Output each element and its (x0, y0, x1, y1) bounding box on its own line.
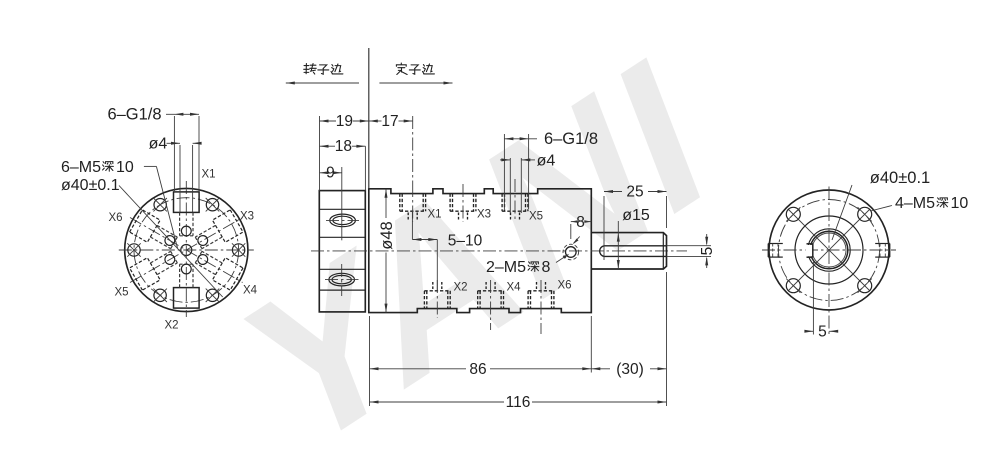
label stator side with arrow (379, 82, 452, 84)
shaft end chamfer line (662, 233, 664, 269)
port X2 (side view bottom) (423, 291, 425, 309)
right view side tab right (875, 243, 890, 245)
svg-text:5–10: 5–10 (448, 233, 483, 250)
label 4-M5 deep10 leader (871, 206, 893, 212)
left view center hole (181, 245, 192, 256)
left view outer circle (125, 188, 248, 311)
left view port X1 boss (top) (174, 192, 200, 236)
svg-text:6–G1/8: 6–G1/8 (544, 130, 598, 148)
port X4 (side view bottom) (477, 291, 479, 309)
svg-text:X6: X6 (108, 212, 122, 224)
svg-text:10: 10 (116, 159, 134, 176)
watermark (223, 4, 731, 463)
right view bolt circle centerline (779, 200, 880, 301)
rotor flange ellipse port top (330, 214, 356, 227)
svg-text:6–G1/8: 6–G1/8 (107, 106, 161, 124)
svg-text:8: 8 (576, 214, 585, 231)
left view bolt circle (centerline) (134, 198, 239, 303)
dim 17 (369, 120, 382, 122)
svg-text:ø40±0.1: ø40±0.1 (870, 169, 930, 187)
svg-text:8: 8 (542, 259, 551, 276)
right view 4x M5 holes (858, 279, 872, 293)
svg-text:18: 18 (335, 138, 352, 155)
left view port X2 boss (bottom) (174, 264, 200, 308)
right view outer circle (769, 190, 889, 310)
dim phi4 (left view) (179, 145, 181, 212)
2-M5 deep8 hole (566, 247, 577, 258)
left view vertical centerline (185, 181, 187, 317)
rotor flange outline (319, 191, 365, 312)
right view side tab left (768, 243, 783, 245)
svg-text:X4: X4 (506, 282, 521, 294)
left view 6x M5 bolt holes (232, 244, 244, 256)
svg-text:X4: X4 (243, 285, 258, 297)
svg-text:ø15: ø15 (622, 207, 650, 224)
svg-text:2–M5: 2–M5 (486, 259, 526, 276)
right view centerlines (762, 249, 896, 251)
svg-text:X5: X5 (529, 211, 543, 223)
left view port X6 boss (150deg) (130, 210, 181, 254)
stator body outline (369, 189, 592, 313)
dim 19 (319, 116, 321, 191)
right view keyway (806, 245, 813, 256)
svg-text:6–M5: 6–M5 (61, 159, 101, 176)
rotor flange ellipse port bottom (329, 273, 355, 286)
left view horizontal centerline (119, 249, 254, 251)
left view port X5 boss (210deg) (130, 246, 181, 290)
svg-text:X6: X6 (557, 280, 571, 292)
keyway slot (600, 246, 667, 257)
rotor/stator divider line (368, 48, 370, 189)
dim phi4 (side view X5) (509, 158, 511, 213)
svg-text:X3: X3 (477, 209, 491, 221)
left view port X4 boss (330deg) (192, 246, 243, 290)
port X5 (side view top) (501, 194, 503, 212)
label rotor side with arrow (286, 82, 359, 84)
svg-text:10: 10 (951, 195, 969, 212)
svg-text:86: 86 (469, 361, 486, 378)
svg-text:25: 25 (626, 184, 643, 201)
svg-text:5: 5 (699, 247, 716, 256)
svg-text:ø4: ø4 (149, 136, 168, 153)
dim phi48 (385, 189, 387, 218)
label 2-M5 deep8 leader (556, 255, 568, 263)
svg-text:X2: X2 (453, 282, 467, 294)
label phi40+-0.1 (left view) (119, 186, 223, 298)
svg-text:ø4: ø4 (537, 152, 556, 169)
svg-text:9: 9 (326, 165, 335, 182)
ext line through top ellipse (dim 9) (341, 167, 343, 240)
svg-text:X1: X1 (427, 209, 441, 221)
dim 25 (603, 196, 605, 260)
dim 6-G1/8 (left view) (173, 116, 175, 191)
label 6-M5 deep 10 (left view) (144, 165, 157, 167)
svg-text:116: 116 (506, 394, 531, 411)
svg-text:ø40±0.1: ø40±0.1 (61, 177, 120, 194)
dim phi15 (617, 221, 619, 269)
right view diagonal lines (788, 209, 870, 291)
dim 8 (570, 224, 572, 239)
right view middle circle (795, 216, 863, 284)
left view diagonal centerline 150deg (130, 218, 243, 283)
svg-text:X3: X3 (240, 211, 254, 223)
shaft outline (591, 233, 666, 269)
dim 5 keyway (667, 245, 712, 247)
dim 9 (320, 172, 326, 174)
port X6 (side view bottom) (527, 291, 529, 309)
dim phi40+-0.1 leader (right view) (832, 185, 852, 240)
dim 5-10 (411, 211, 413, 240)
port X1 (side view top) (399, 194, 401, 212)
right view shaft circles (808, 229, 850, 271)
main horizontal centerline (311, 250, 687, 252)
svg-text:5: 5 (818, 324, 827, 341)
dim 5 (right view bottom) (812, 262, 814, 335)
svg-text:4–M5: 4–M5 (895, 195, 935, 212)
dim 18 (364, 146, 366, 190)
dim (30) (666, 272, 668, 406)
svg-text:ø48: ø48 (378, 221, 396, 249)
left view diagonal centerline 30deg (130, 218, 243, 283)
svg-text:(30): (30) (616, 361, 644, 378)
rotor flange horizontal lines (319, 208, 365, 210)
svg-text:19: 19 (336, 113, 353, 130)
dim 116 (370, 401, 505, 403)
dim 6-G1/8 (side view X5) (503, 134, 505, 209)
dim 86 (369, 316, 371, 406)
svg-text:X5: X5 (114, 287, 128, 299)
svg-text:X2: X2 (164, 320, 178, 332)
port X3 (side view top) (449, 194, 451, 212)
svg-text:17: 17 (381, 113, 398, 130)
svg-text:X1: X1 (201, 169, 215, 181)
left view port X3 boss (30deg) (192, 210, 243, 254)
